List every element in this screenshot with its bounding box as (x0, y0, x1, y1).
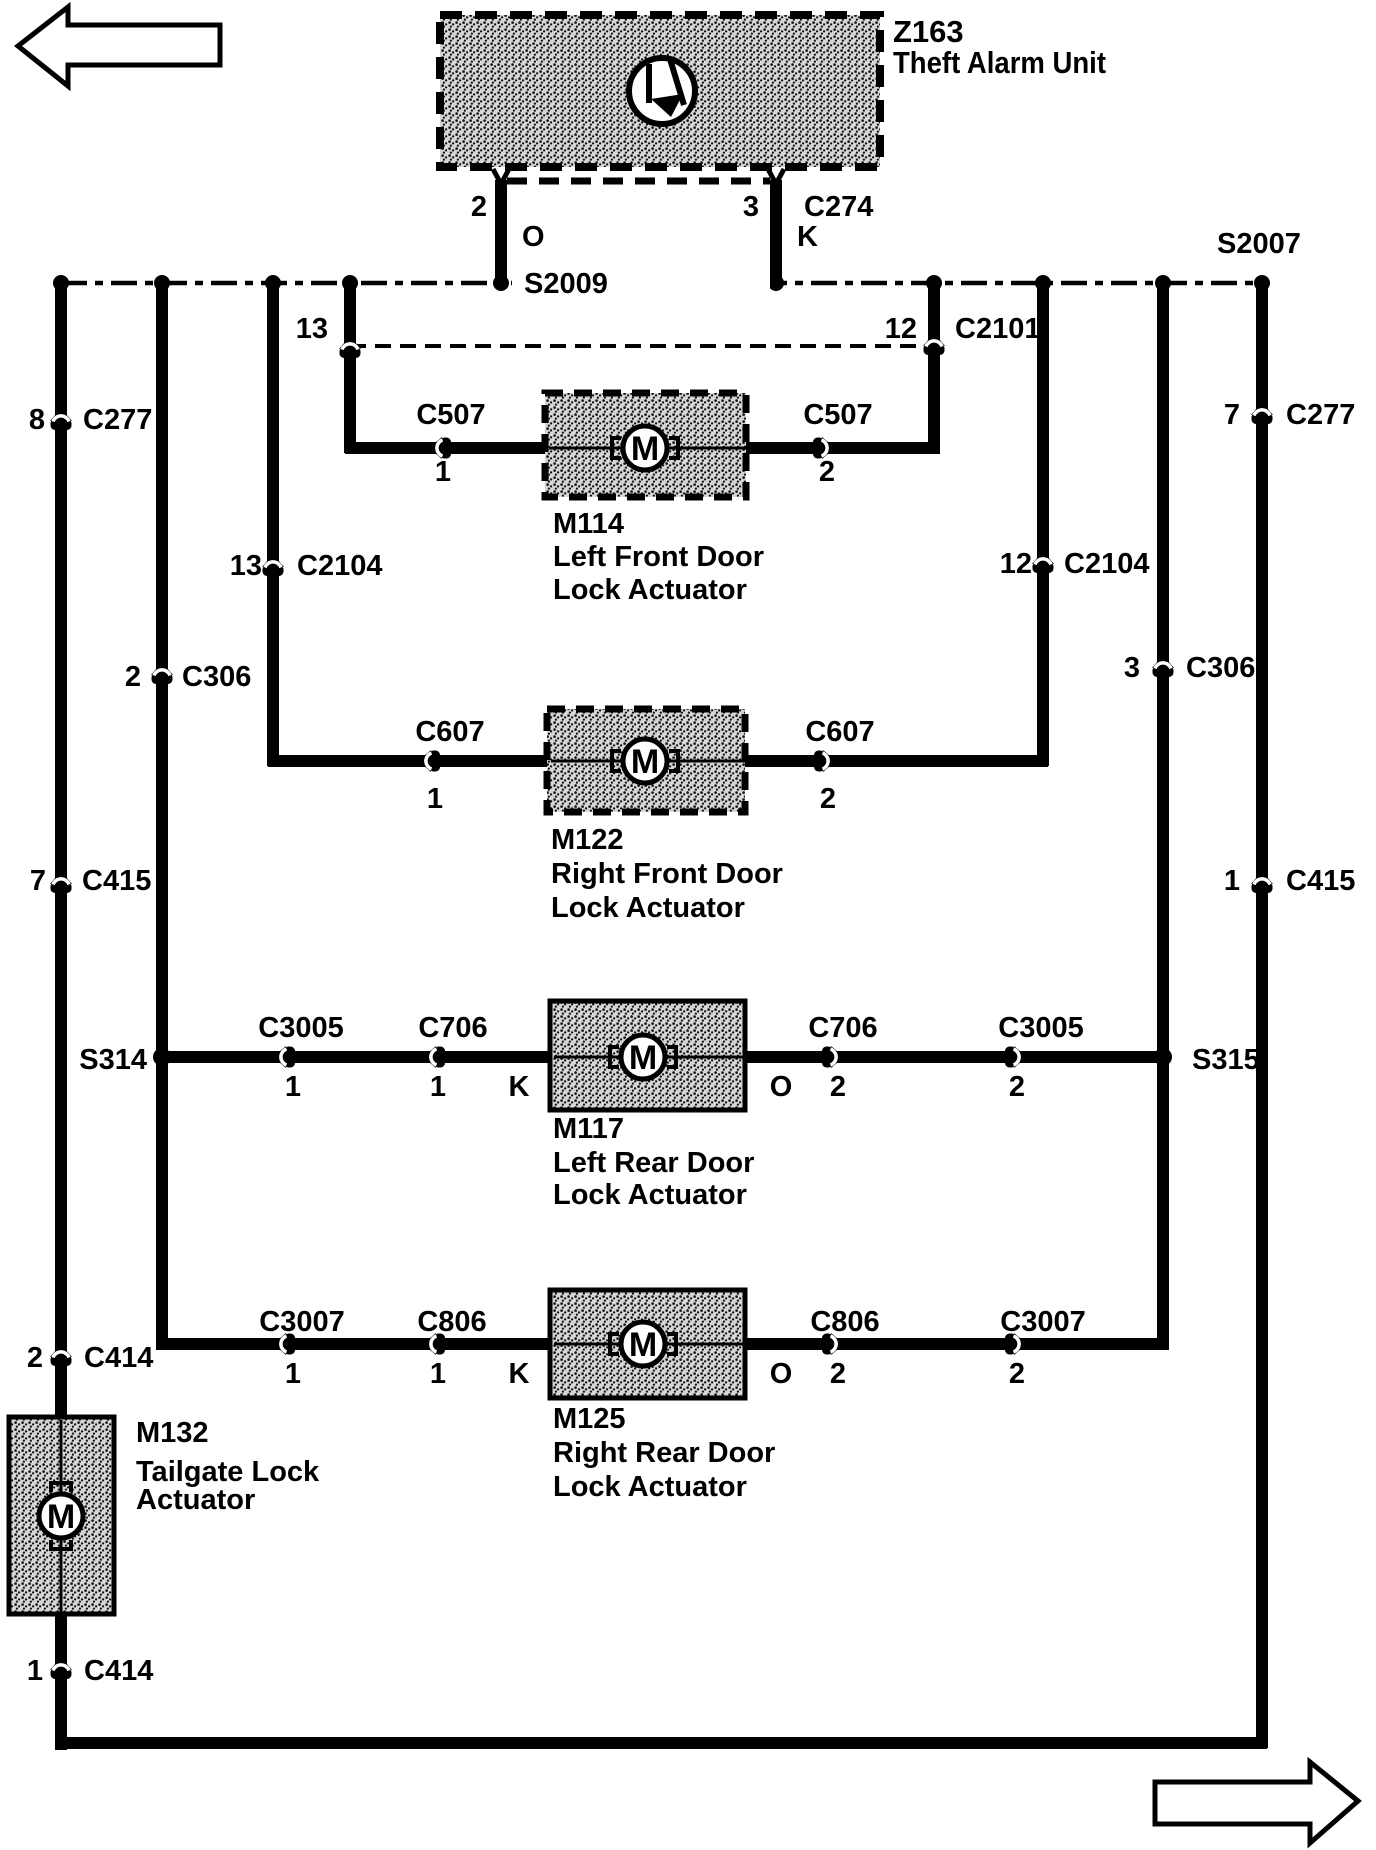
svg-text:M114: M114 (553, 508, 624, 540)
svg-text:2: 2 (819, 456, 835, 488)
svg-text:C607: C607 (805, 716, 874, 748)
svg-text:C415: C415 (82, 865, 151, 897)
svg-text:M: M (629, 1039, 657, 1077)
svg-text:C507: C507 (416, 399, 485, 431)
svg-text:1: 1 (1224, 865, 1240, 897)
svg-text:Lock Actuator: Lock Actuator (553, 1471, 747, 1503)
svg-text:O: O (770, 1071, 793, 1103)
svg-text:Actuator: Actuator (136, 1484, 255, 1516)
svg-text:M: M (47, 1498, 75, 1536)
svg-text:C3007: C3007 (1000, 1306, 1085, 1338)
svg-text:M132: M132 (136, 1417, 209, 1449)
svg-text:C806: C806 (417, 1306, 486, 1338)
svg-text:12: 12 (885, 313, 917, 345)
svg-text:1: 1 (430, 1358, 446, 1390)
svg-text:C3005: C3005 (998, 1012, 1083, 1044)
svg-text:Lock Actuator: Lock Actuator (553, 1179, 747, 1211)
svg-text:C274: C274 (804, 191, 873, 223)
svg-text:Left Front Door: Left Front Door (553, 541, 764, 573)
svg-text:2: 2 (125, 661, 141, 693)
svg-text:M122: M122 (551, 824, 624, 856)
svg-text:S315: S315 (1192, 1044, 1260, 1076)
svg-text:M117: M117 (553, 1113, 624, 1145)
svg-text:C3007: C3007 (259, 1306, 344, 1338)
svg-text:Right Rear Door: Right Rear Door (553, 1437, 775, 1469)
svg-text:C414: C414 (84, 1342, 153, 1374)
svg-text:7: 7 (1224, 399, 1240, 431)
svg-text:8: 8 (29, 404, 45, 436)
svg-text:M: M (631, 430, 659, 468)
svg-text:C277: C277 (1286, 399, 1355, 431)
svg-text:K: K (509, 1071, 530, 1103)
svg-text:K: K (509, 1358, 530, 1390)
svg-text:C507: C507 (803, 399, 872, 431)
svg-text:C3005: C3005 (258, 1012, 343, 1044)
svg-text:3: 3 (743, 191, 759, 223)
svg-text:1: 1 (435, 456, 451, 488)
svg-text:Z163: Z163 (893, 14, 964, 49)
svg-text:S314: S314 (79, 1044, 147, 1076)
svg-text:O: O (522, 221, 545, 253)
svg-text:1: 1 (285, 1358, 301, 1390)
svg-text:M: M (629, 1326, 657, 1364)
svg-text:O: O (770, 1358, 793, 1390)
svg-text:C306: C306 (1186, 652, 1255, 684)
svg-text:C306: C306 (182, 661, 251, 693)
svg-text:3: 3 (1124, 652, 1140, 684)
svg-text:C414: C414 (84, 1655, 153, 1687)
svg-text:1: 1 (427, 783, 443, 815)
svg-text:13: 13 (296, 313, 328, 345)
svg-text:C706: C706 (418, 1012, 487, 1044)
svg-text:2: 2 (820, 783, 836, 815)
svg-text:C2104: C2104 (1064, 548, 1149, 580)
svg-text:C277: C277 (83, 404, 152, 436)
svg-text:C607: C607 (415, 716, 484, 748)
svg-text:C706: C706 (808, 1012, 877, 1044)
svg-text:1: 1 (285, 1071, 301, 1103)
svg-text:Lock Actuator: Lock Actuator (551, 892, 745, 924)
svg-text:2: 2 (830, 1358, 846, 1390)
svg-text:2: 2 (1009, 1071, 1025, 1103)
svg-text:C415: C415 (1286, 865, 1355, 897)
svg-text:M125: M125 (553, 1403, 626, 1435)
svg-text:Lock Actuator: Lock Actuator (553, 574, 747, 606)
svg-text:13: 13 (230, 550, 262, 582)
svg-text:2: 2 (1009, 1358, 1025, 1390)
svg-text:2: 2 (830, 1071, 846, 1103)
svg-text:S2009: S2009 (524, 268, 608, 300)
svg-text:1: 1 (430, 1071, 446, 1103)
svg-text:2: 2 (27, 1342, 43, 1374)
svg-text:7: 7 (30, 865, 46, 897)
svg-text:Left Rear Door: Left Rear Door (553, 1147, 754, 1179)
svg-text:C2101: C2101 (955, 313, 1040, 345)
svg-text:1: 1 (27, 1655, 43, 1687)
svg-text:C806: C806 (810, 1306, 879, 1338)
svg-text:Theft Alarm Unit: Theft Alarm Unit (893, 45, 1106, 80)
svg-text:M: M (631, 743, 659, 781)
svg-text:C2104: C2104 (297, 550, 382, 582)
svg-text:Right Front Door: Right Front Door (551, 858, 783, 890)
svg-text:12: 12 (1000, 548, 1032, 580)
svg-text:S2007: S2007 (1217, 228, 1301, 260)
svg-text:K: K (797, 221, 818, 253)
svg-text:2: 2 (471, 191, 487, 223)
